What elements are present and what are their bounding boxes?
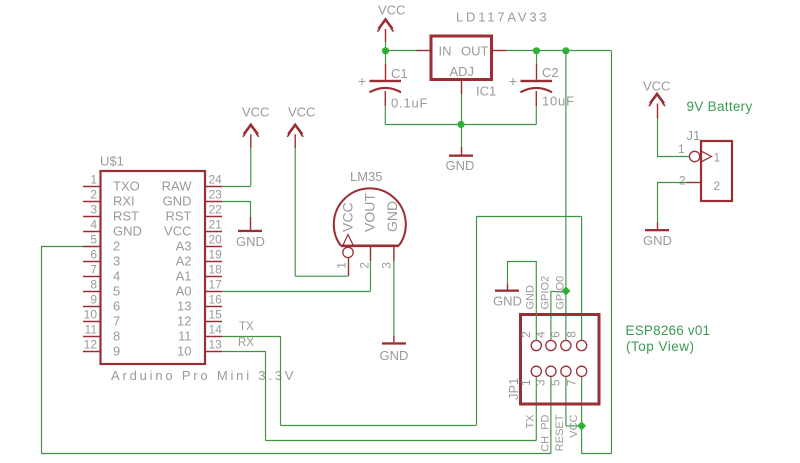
- U$1 pin 14 (11): [178, 323, 222, 344]
- svg-text:9: 9: [113, 344, 120, 359]
- svg-text:11: 11: [178, 329, 192, 344]
- svg-text:5: 5: [549, 379, 563, 386]
- svg-text:3: 3: [90, 203, 97, 217]
- svg-text:12: 12: [177, 314, 191, 329]
- svg-text:GPIO2: GPIO2: [539, 276, 551, 310]
- svg-text:VOUT: VOUT: [362, 193, 378, 232]
- wire diamond to JP1 pin 4: [551, 291, 566, 340]
- node junction GPIO0 (diamond): [561, 287, 570, 296]
- U$1 pin 22 (RST): [166, 203, 223, 224]
- wire J1 pin2 to ground: [657, 182, 687, 223]
- svg-text:LM35: LM35: [350, 169, 383, 184]
- sensor LM35 (TO-92): [334, 188, 406, 245]
- U$1 pin 3 (RST): [83, 203, 139, 224]
- svg-text:11: 11: [85, 323, 98, 337]
- svg-text:2: 2: [714, 179, 721, 193]
- svg-text:GPIO0: GPIO0: [554, 276, 566, 310]
- svg-text:8: 8: [90, 278, 97, 292]
- wire TX net (Arduino pin14 to ESP pin8): [222, 217, 582, 426]
- svg-text:2: 2: [679, 174, 686, 188]
- ground (regulator ADJ): [446, 147, 475, 173]
- svg-text:0.1uF: 0.1uF: [391, 96, 428, 111]
- U$1 pin 21 (VCC): [164, 218, 222, 239]
- svg-text:VCC: VCC: [164, 224, 191, 239]
- svg-text:GND: GND: [446, 158, 475, 173]
- svg-text:1: 1: [334, 262, 348, 269]
- svg-text:GND: GND: [113, 224, 142, 239]
- svg-text:7: 7: [113, 314, 120, 329]
- U$1 pin 18 (A1): [176, 263, 223, 284]
- svg-text:A1: A1: [176, 269, 192, 284]
- wire OUT drop to GPIO0: [565, 51, 567, 292]
- svg-text:19: 19: [209, 248, 223, 262]
- wire diamond to JP1 pin 6: [565, 291, 567, 340]
- U$1 pin 4 (GND): [83, 218, 142, 239]
- svg-text:OUT: OUT: [461, 44, 489, 59]
- svg-text:VCC: VCC: [643, 79, 670, 94]
- U$1 pin 5 (2): [83, 233, 120, 254]
- JP1 pad pin 4: [534, 331, 556, 351]
- svg-text:7: 7: [564, 379, 578, 386]
- svg-text:Arduino Pro Mini 3.3V: Arduino Pro Mini 3.3V: [111, 368, 296, 383]
- svg-text:VCC: VCC: [568, 414, 580, 437]
- svg-text:VCC: VCC: [340, 202, 356, 232]
- U$1 pin 1 (TXO): [83, 173, 140, 194]
- U$1 pin 13 (10): [177, 338, 222, 359]
- wire OUT down right side: [582, 51, 612, 454]
- svg-text:CH_PD: CH_PD: [540, 414, 552, 451]
- svg-text:3: 3: [379, 262, 393, 269]
- U$1 pin 24 (RAW): [162, 173, 223, 194]
- svg-text:9V Battery: 9V Battery: [687, 99, 753, 114]
- svg-text:GND: GND: [493, 294, 522, 309]
- svg-text:GND: GND: [384, 201, 400, 232]
- junction at C1/IN: [382, 47, 389, 54]
- svg-text:10: 10: [177, 344, 191, 359]
- connector J1 9V battery: [701, 141, 732, 201]
- svg-text:GND: GND: [525, 285, 537, 310]
- J1 pin 1 with marker: [678, 142, 721, 165]
- wire VCC arrow to junction: [385, 42, 387, 51]
- svg-text:2: 2: [519, 331, 533, 338]
- svg-text:9: 9: [90, 293, 97, 307]
- U$1 pin 17 (A0): [176, 278, 223, 299]
- svg-text:16: 16: [209, 293, 223, 307]
- svg-text:TX: TX: [239, 321, 254, 333]
- svg-text:VCC: VCC: [378, 3, 405, 18]
- svg-text:GND: GND: [643, 233, 672, 248]
- svg-text:22: 22: [209, 203, 223, 217]
- U$1 pin 20 (A3): [176, 233, 223, 254]
- U$1 pin 2 (RXI): [83, 188, 135, 209]
- U$1 pin 12 (9): [83, 338, 120, 359]
- LM35 pin 3 (GND): [379, 247, 394, 269]
- svg-text:RAW: RAW: [162, 179, 193, 194]
- junction at OUT/ESP drop: [562, 47, 569, 54]
- capacitor C2 10uF (polarized): [510, 51, 553, 125]
- svg-text:8: 8: [113, 329, 120, 344]
- svg-text:5: 5: [113, 284, 120, 299]
- svg-text:23: 23: [209, 188, 223, 202]
- svg-text:6: 6: [113, 299, 120, 314]
- U$1 pin 8 (5): [83, 278, 120, 299]
- IC IC1 LD117AV33 voltage regulator: [417, 36, 507, 94]
- wire ESP GND symbol to pin 2: [507, 261, 536, 340]
- JP1 pad pin 5: [549, 366, 571, 386]
- svg-text:14: 14: [209, 323, 223, 337]
- svg-text:24: 24: [209, 173, 223, 187]
- svg-text:1: 1: [678, 142, 685, 156]
- svg-text:15: 15: [209, 308, 223, 322]
- JP1 pad pin 7: [564, 366, 586, 386]
- svg-text:6: 6: [90, 248, 97, 262]
- svg-text:2: 2: [357, 262, 371, 269]
- U$1 pin 16 (13): [177, 293, 222, 314]
- svg-text:GND: GND: [380, 348, 409, 363]
- svg-text:10: 10: [84, 308, 98, 322]
- IC U$1 Arduino Pro Mini 3.3V: [101, 171, 206, 364]
- svg-text:7: 7: [90, 263, 97, 277]
- ground (Arduino pin 23): [236, 217, 265, 249]
- svg-text:IC1: IC1: [476, 84, 496, 99]
- U$1 pin 23 (GND): [163, 188, 223, 209]
- svg-text:12: 12: [84, 338, 98, 352]
- svg-text:ADJ: ADJ: [450, 64, 475, 79]
- wire LM35 pin3 to ground: [393, 261, 395, 336]
- svg-text:13: 13: [177, 299, 191, 314]
- svg-text:6: 6: [549, 331, 563, 338]
- U$1 pin 19 (A2): [176, 248, 223, 269]
- LM35 pin 1 (VCC) with marker: [334, 235, 353, 277]
- svg-text:A3: A3: [176, 239, 192, 254]
- wire RAW to VCC arrow: [222, 148, 251, 187]
- U$1 pin 11 (8): [83, 323, 120, 344]
- svg-text:C2: C2: [542, 65, 559, 80]
- svg-text:VCC: VCC: [242, 105, 269, 120]
- J1 pin 2: [679, 174, 721, 194]
- wire RX net (Arduino pin13 to ESP pin1): [222, 351, 536, 441]
- wire JP1 pin 7 / pin 5 to VCC net: [566, 377, 582, 426]
- supply VCC (battery): [643, 79, 670, 119]
- svg-text:TXO: TXO: [113, 179, 140, 194]
- svg-text:13: 13: [209, 338, 223, 352]
- supply VCC (Arduino RAW): [242, 105, 269, 149]
- wire junction to IN pin: [386, 50, 417, 52]
- svg-text:C1: C1: [391, 66, 408, 81]
- svg-text:2: 2: [113, 239, 120, 254]
- svg-text:2: 2: [90, 188, 97, 202]
- JP1 pad pin 2: [519, 331, 541, 351]
- svg-text:3: 3: [534, 379, 548, 386]
- svg-text:20: 20: [209, 233, 223, 247]
- svg-text:ESP8266 v01: ESP8266 v01: [626, 323, 711, 338]
- svg-text:GND: GND: [236, 234, 265, 249]
- svg-text:1: 1: [90, 173, 97, 187]
- wire D2 net (Arduino pin5 to ESP CH_PD): [41, 246, 551, 454]
- svg-text:1: 1: [714, 151, 721, 165]
- JP1 pad pin 3: [534, 366, 556, 386]
- svg-text:1: 1: [519, 379, 533, 386]
- svg-text:4: 4: [90, 218, 97, 232]
- JP1 pad pin 8: [564, 331, 586, 351]
- U$1 pin 15 (12): [177, 308, 222, 329]
- svg-text:RST: RST: [113, 209, 139, 224]
- svg-text:U$1: U$1: [100, 154, 124, 169]
- svg-text:18: 18: [209, 263, 223, 277]
- connector JP1 ESP8266 header: [521, 315, 600, 405]
- svg-text:10uF: 10uF: [542, 94, 575, 109]
- svg-text:RXI: RXI: [113, 194, 135, 209]
- svg-text:RESET: RESET: [554, 414, 566, 451]
- svg-text:5: 5: [90, 233, 97, 247]
- svg-text:IN: IN: [439, 44, 452, 59]
- svg-text:21: 21: [209, 218, 223, 232]
- node junction VCC/RESET (diamond): [577, 421, 586, 430]
- svg-text:8: 8: [564, 331, 578, 338]
- svg-text:3: 3: [113, 254, 120, 269]
- wire OUT pin to right edge: [506, 50, 612, 52]
- svg-text:RST: RST: [166, 209, 192, 224]
- svg-text:J1: J1: [687, 128, 701, 143]
- svg-text:RX: RX: [238, 337, 254, 349]
- svg-text:A2: A2: [176, 254, 192, 269]
- JP1 pad pin 1: [519, 366, 541, 386]
- wire A0 to LM35 VOUT: [222, 261, 371, 292]
- U$1 pin 10 (7): [83, 308, 120, 329]
- ground (battery): [643, 223, 672, 249]
- supply VCC (top, net 9V): [378, 3, 406, 43]
- junction at C2/OUT: [533, 47, 540, 54]
- wire C1 bottom to C2 bottom (GND rail): [385, 124, 536, 126]
- svg-text:(Top View): (Top View): [626, 339, 695, 354]
- capacitor C1 0.1uF (polarized): [359, 51, 402, 125]
- svg-text:A0: A0: [176, 284, 192, 299]
- wire Arduino pin23 GND: [222, 201, 251, 217]
- svg-text:LD117AV33: LD117AV33: [456, 10, 549, 25]
- svg-text:TX: TX: [524, 414, 536, 429]
- supply VCC (LM35): [287, 105, 315, 149]
- svg-text:17: 17: [209, 278, 223, 292]
- wire VCC arrow to J1 pin1: [657, 118, 689, 157]
- svg-text:4: 4: [113, 269, 120, 284]
- ground (ESP pin 2): [493, 284, 522, 309]
- ground (LM35): [380, 336, 409, 363]
- LM35 pin 2 (VOUT): [357, 247, 371, 269]
- JP1 pad pin 6: [549, 331, 571, 351]
- junction at ADJ/GND rail: [457, 121, 464, 128]
- svg-text:GND: GND: [163, 194, 192, 209]
- wire VCC arrow to LM35 pin1: [295, 148, 348, 276]
- svg-text:VCC: VCC: [288, 105, 315, 120]
- U$1 pin 6 (3): [83, 248, 120, 269]
- wire ADJ down to GND: [461, 94, 463, 147]
- U$1 pin 9 (6): [83, 293, 120, 314]
- svg-text:4: 4: [534, 331, 548, 338]
- U$1 pin 7 (4): [83, 263, 120, 284]
